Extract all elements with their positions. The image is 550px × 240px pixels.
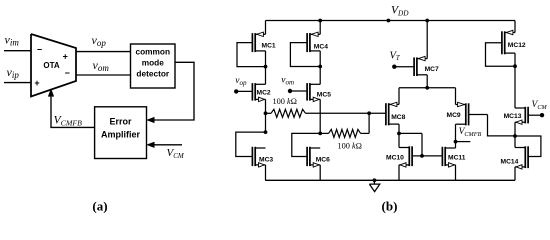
svg-text:Error: Error [109, 116, 132, 126]
svg-text:common: common [136, 46, 171, 56]
svg-text:MC14: MC14 [501, 158, 519, 165]
svg-text:+: + [34, 78, 39, 88]
svg-text:MC12: MC12 [508, 42, 526, 49]
svg-text:MC11: MC11 [448, 155, 466, 162]
svg-text:−: − [65, 68, 70, 78]
svg-text:(b): (b) [382, 199, 398, 214]
svg-text:mode: mode [142, 57, 165, 67]
svg-text:MC7: MC7 [425, 66, 439, 73]
svg-text:MC2: MC2 [257, 90, 271, 97]
svg-text:MC5: MC5 [317, 92, 331, 99]
svg-text:100 kΩ: 100 kΩ [338, 141, 362, 150]
svg-text:MC1: MC1 [262, 42, 276, 49]
svg-text:(a): (a) [92, 199, 107, 214]
svg-text:detector: detector [136, 68, 170, 78]
svg-text:MC9: MC9 [447, 112, 461, 119]
svg-text:100 kΩ: 100 kΩ [273, 97, 297, 106]
svg-text:MC6: MC6 [316, 156, 330, 163]
svg-text:MC3: MC3 [259, 156, 273, 163]
svg-text:MC4: MC4 [314, 44, 328, 51]
svg-text:−: − [37, 44, 42, 54]
svg-text:MC10: MC10 [386, 155, 404, 162]
svg-text:MC13: MC13 [504, 113, 522, 120]
svg-text:Amplifier: Amplifier [101, 129, 141, 139]
svg-text:+: + [63, 51, 68, 61]
svg-text:MC8: MC8 [391, 114, 405, 121]
svg-text:OTA: OTA [43, 61, 60, 70]
